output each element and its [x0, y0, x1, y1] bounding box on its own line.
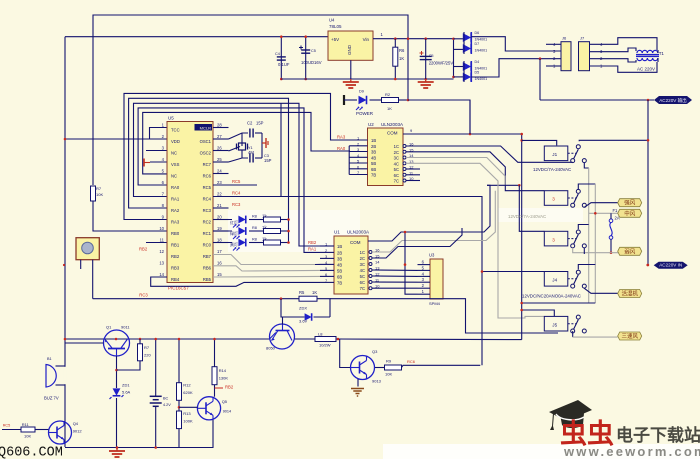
svg-text:0.1UF: 0.1UF — [278, 62, 290, 67]
svg-text:ZDX: ZDX — [299, 306, 307, 311]
svg-text:10: 10 — [159, 226, 164, 231]
svg-text:RB3: RB3 — [171, 265, 180, 270]
svg-text:R6: R6 — [399, 48, 405, 53]
svg-text:R8: R8 — [252, 237, 257, 241]
svg-text:COM: COM — [387, 131, 398, 136]
svg-text:5B: 5B — [337, 268, 342, 273]
svg-text:9013: 9013 — [372, 379, 382, 384]
svg-text:AC220V IN: AC220V IN — [659, 263, 682, 268]
svg-text:10K: 10K — [385, 372, 392, 377]
svg-text:3B: 3B — [337, 256, 342, 261]
svg-text:RC5: RC5 — [3, 424, 11, 428]
svg-text:16: 16 — [217, 261, 222, 266]
svg-text:三速风: 三速风 — [621, 333, 638, 340]
svg-text:C2: C2 — [247, 121, 253, 126]
svg-text:1N4001: 1N4001 — [475, 49, 488, 53]
svg-text:C5: C5 — [311, 49, 316, 53]
svg-text:3.6V: 3.6V — [299, 319, 308, 324]
svg-text:POWER: POWER — [356, 111, 374, 116]
svg-text:1k: 1k — [262, 213, 267, 218]
svg-text:AC220V 输出: AC220V 输出 — [659, 97, 687, 104]
svg-text:7B: 7B — [371, 173, 376, 178]
svg-text:6B: 6B — [371, 167, 376, 172]
svg-text:17: 17 — [217, 249, 222, 254]
svg-text:1B: 1B — [337, 244, 342, 249]
svg-text:R14: R14 — [219, 368, 227, 373]
svg-text:10K: 10K — [24, 434, 31, 439]
svg-text:Vin: Vin — [363, 37, 370, 42]
svg-text:GND: GND — [347, 44, 352, 55]
svg-text:RB2: RB2 — [308, 240, 317, 245]
svg-text:U1: U1 — [334, 230, 340, 235]
svg-text:R13: R13 — [183, 411, 191, 416]
svg-text:15P: 15P — [256, 121, 264, 126]
svg-text:弱风: 弱风 — [624, 248, 636, 255]
svg-text:5.6A: 5.6A — [122, 390, 131, 395]
svg-text:10K: 10K — [96, 192, 103, 197]
svg-text:3C: 3C — [394, 156, 399, 161]
svg-text:L8: L8 — [318, 331, 323, 336]
svg-text:RB2: RB2 — [225, 385, 234, 390]
svg-text:100K: 100K — [183, 419, 193, 424]
svg-text:www.eeworm.com: www.eeworm.com — [563, 444, 700, 459]
svg-text:OSC1: OSC1 — [200, 139, 212, 144]
svg-text:100UD16V: 100UD16V — [301, 60, 322, 65]
svg-text:Q5: Q5 — [222, 399, 228, 404]
svg-text:R12: R12 — [183, 383, 191, 388]
svg-text:MCLR: MCLR — [200, 126, 211, 131]
svg-text:9012: 9012 — [73, 429, 83, 434]
svg-text:1K: 1K — [312, 290, 317, 295]
svg-text:6C: 6C — [360, 280, 365, 285]
svg-text:28: 28 — [217, 123, 222, 128]
svg-text:7C: 7C — [360, 286, 365, 291]
svg-text:RC6: RC6 — [203, 173, 212, 178]
svg-text:活湿机: 活湿机 — [621, 290, 638, 298]
svg-text:RC1: RC1 — [203, 231, 212, 236]
svg-text:VSS: VSS — [171, 162, 180, 167]
svg-text:+5V: +5V — [331, 37, 339, 42]
svg-text:1C: 1C — [394, 144, 399, 149]
svg-text:2B: 2B — [371, 144, 376, 149]
svg-text:AC 220V: AC 220V — [637, 67, 655, 72]
svg-text:5C: 5C — [394, 167, 399, 172]
svg-text:15P: 15P — [264, 158, 272, 163]
svg-text:R7: R7 — [96, 186, 102, 191]
svg-text:F1: F1 — [613, 208, 619, 213]
svg-text:13: 13 — [159, 261, 164, 266]
svg-text:RB0: RB0 — [171, 231, 180, 236]
svg-text:D5: D5 — [475, 71, 480, 75]
svg-text:9011: 9011 — [121, 325, 130, 330]
svg-text:22: 22 — [217, 192, 222, 197]
svg-text:U4: U4 — [329, 18, 335, 23]
svg-text:Q1: Q1 — [106, 325, 112, 330]
svg-text:OSC2: OSC2 — [200, 150, 212, 155]
svg-text:14: 14 — [159, 272, 164, 277]
svg-text:130K: 130K — [219, 376, 229, 381]
svg-text:R9: R9 — [386, 359, 392, 364]
svg-text:RB5: RB5 — [203, 277, 212, 282]
svg-text:RC4: RC4 — [232, 191, 241, 196]
svg-text:24: 24 — [217, 169, 222, 174]
svg-text:R11: R11 — [22, 422, 30, 427]
svg-text:RC5: RC5 — [203, 185, 212, 190]
svg-text:3C: 3C — [360, 262, 365, 267]
svg-text:R8: R8 — [252, 214, 257, 218]
svg-text:ZD1: ZD1 — [122, 383, 130, 388]
svg-text:1N4001: 1N4001 — [475, 77, 488, 81]
svg-text:19: 19 — [217, 226, 222, 231]
svg-text:10/2W: 10/2W — [319, 342, 331, 347]
svg-text:2C: 2C — [394, 150, 399, 155]
svg-text:RC0: RC0 — [203, 242, 212, 247]
svg-text:12VDC/7A-240VAC: 12VDC/7A-240VAC — [533, 167, 571, 172]
svg-text:5B: 5B — [371, 161, 376, 166]
svg-text:U3: U3 — [429, 253, 435, 258]
svg-text:7B: 7B — [337, 280, 342, 285]
svg-text:15: 15 — [217, 272, 222, 277]
svg-text:RB1: RB1 — [171, 242, 180, 247]
svg-text:B1: B1 — [47, 357, 52, 361]
svg-text:红灯: 红灯 — [230, 219, 238, 225]
svg-text:220: 220 — [144, 353, 151, 358]
svg-text:强风: 强风 — [624, 200, 636, 207]
svg-text:RA0: RA0 — [171, 185, 180, 190]
svg-text:D9: D9 — [359, 90, 364, 94]
svg-text:BC: BC — [163, 397, 169, 401]
svg-text:2C: 2C — [360, 256, 365, 261]
svg-text:4B: 4B — [337, 262, 342, 267]
svg-text:黄灯: 黄灯 — [230, 241, 238, 247]
svg-text:中风: 中风 — [624, 209, 636, 217]
svg-text:RB6: RB6 — [203, 265, 212, 270]
svg-text:D4: D4 — [475, 60, 480, 64]
svg-text:RA0: RA0 — [337, 146, 346, 151]
svg-text:U2: U2 — [368, 122, 374, 127]
svg-text:RB7: RB7 — [203, 254, 212, 259]
svg-text:电子下载站: 电子下载站 — [616, 425, 700, 445]
svg-text:RA3: RA3 — [337, 135, 346, 140]
svg-text:6C: 6C — [394, 173, 399, 178]
svg-text:1B: 1B — [371, 138, 376, 143]
svg-text:绿灯: 绿灯 — [230, 230, 238, 236]
svg-text:RC6: RC6 — [407, 359, 416, 364]
svg-text:4B: 4B — [371, 155, 376, 160]
svg-text:3: 3 — [552, 197, 555, 202]
svg-text:Q4: Q4 — [73, 421, 79, 426]
svg-text:RC3: RC3 — [232, 202, 241, 207]
svg-text:TCC: TCC — [171, 127, 180, 132]
svg-text:RC5: RC5 — [232, 179, 241, 184]
svg-text:U5: U5 — [168, 116, 174, 121]
svg-text:1K: 1K — [387, 106, 392, 111]
svg-text:1k: 1k — [262, 225, 267, 230]
svg-text:8050: 8050 — [266, 346, 276, 351]
svg-text:14: 14 — [375, 260, 380, 265]
svg-text:COM: COM — [350, 240, 361, 245]
svg-text:26: 26 — [217, 146, 222, 151]
svg-text:RC2: RC2 — [203, 219, 212, 224]
svg-text:1N4001: 1N4001 — [475, 38, 488, 42]
svg-text:SPM4: SPM4 — [429, 301, 441, 306]
svg-text:12VDC/7A-240VAC: 12VDC/7A-240VAC — [508, 214, 546, 219]
svg-text:J1: J1 — [552, 152, 557, 157]
svg-text:RB2: RB2 — [139, 247, 148, 252]
svg-text:NC: NC — [171, 150, 177, 155]
svg-text:18: 18 — [217, 238, 222, 243]
svg-text:RB2: RB2 — [171, 254, 180, 259]
svg-text:RA1: RA1 — [308, 247, 317, 252]
svg-text:J5: J5 — [552, 322, 557, 327]
svg-text:20: 20 — [217, 215, 222, 220]
svg-text:RB4: RB4 — [171, 277, 180, 282]
svg-text:RC3: RC3 — [203, 208, 212, 213]
svg-text:C4: C4 — [275, 52, 280, 56]
svg-text:3B: 3B — [371, 150, 376, 155]
svg-text:Q3: Q3 — [372, 349, 378, 354]
svg-text:R5: R5 — [299, 290, 305, 295]
svg-text:2B: 2B — [337, 250, 342, 255]
svg-text:1k: 1k — [262, 236, 267, 241]
svg-text:BUZ 7V: BUZ 7V — [44, 396, 59, 401]
svg-text:7C: 7C — [394, 179, 399, 184]
svg-text:R7: R7 — [144, 345, 150, 350]
svg-text:T1: T1 — [659, 51, 665, 56]
svg-text:11: 11 — [160, 238, 165, 243]
svg-text:ULN2003A: ULN2003A — [347, 230, 369, 235]
svg-text:5C: 5C — [360, 274, 365, 279]
svg-text:2200WF/25V: 2200WF/25V — [429, 61, 454, 66]
svg-text:23: 23 — [217, 180, 222, 185]
svg-text:12VDC/NC20ANO0A-240VAC: 12VDC/NC20ANO0A-240VAC — [522, 294, 581, 299]
svg-text:RA1: RA1 — [171, 196, 180, 201]
svg-text:25: 25 — [217, 157, 222, 162]
svg-text:27: 27 — [217, 134, 222, 139]
svg-text:RA3: RA3 — [171, 219, 180, 224]
svg-text:NC: NC — [171, 173, 177, 178]
svg-text:9014: 9014 — [223, 410, 231, 414]
svg-text:RC7: RC7 — [203, 162, 212, 167]
svg-text:1C: 1C — [360, 250, 365, 255]
svg-text:R8: R8 — [252, 226, 257, 230]
svg-text:VDD: VDD — [171, 139, 180, 144]
svg-text:6B: 6B — [337, 274, 342, 279]
svg-text:RA2: RA2 — [171, 208, 180, 213]
svg-text:R2: R2 — [385, 92, 391, 97]
svg-text:J4: J4 — [552, 278, 557, 283]
svg-text:Q606.COM: Q606.COM — [0, 446, 63, 459]
svg-text:21: 21 — [217, 203, 222, 208]
svg-text:78L05: 78L05 — [329, 24, 342, 29]
svg-text:D6: D6 — [475, 31, 480, 35]
svg-text:12: 12 — [159, 249, 164, 254]
svg-text:620K: 620K — [183, 390, 193, 395]
svg-text:4.2V: 4.2V — [163, 403, 171, 407]
svg-text:RC4: RC4 — [203, 196, 212, 201]
svg-text:4C: 4C — [360, 268, 365, 273]
svg-text:1K: 1K — [399, 56, 404, 61]
svg-text:4C: 4C — [394, 161, 399, 166]
svg-text:3: 3 — [552, 237, 555, 242]
svg-text:D7: D7 — [475, 42, 480, 46]
svg-text:RC3: RC3 — [139, 293, 148, 298]
svg-text:C5: C5 — [429, 54, 434, 58]
svg-text:ULN2003A: ULN2003A — [381, 122, 403, 127]
